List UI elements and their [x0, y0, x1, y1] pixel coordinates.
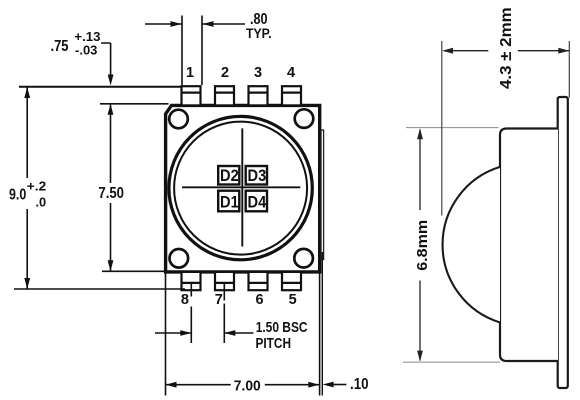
svg-text:1: 1 — [186, 65, 194, 81]
svg-text:+.2: +.2 — [27, 179, 46, 193]
svg-text:.10: .10 — [350, 376, 369, 393]
bottom pin shoulder lines — [182, 282, 302, 284]
extension line pin8 center — [190, 283, 192, 343]
side view body block — [500, 129, 558, 362]
extension line above pin1 left — [181, 16, 183, 86]
svg-text:D1: D1 — [220, 192, 239, 211]
die D3 box — [246, 166, 267, 185]
svg-text:5: 5 — [289, 292, 297, 308]
svg-text:9.0: 9.0 — [9, 187, 26, 204]
pin 1 — [182, 86, 201, 105]
dim 9.0 line — [26, 88, 28, 289]
svg-text:8: 8 — [181, 292, 189, 308]
dim 7.50 line — [110, 104, 112, 270]
side tab on right edge — [321, 130, 324, 260]
pin 3 — [249, 86, 268, 105]
die D2 box — [218, 166, 239, 185]
lens inner circle — [174, 122, 307, 255]
svg-text:.75: .75 — [51, 38, 69, 55]
svg-text:TYP.: TYP. — [246, 26, 272, 41]
svg-text:6.8mm: 6.8mm — [414, 220, 431, 271]
svg-text:7: 7 — [215, 292, 223, 308]
dim 4.3 extension left — [441, 41, 443, 216]
mounting hole bottom-right — [294, 249, 313, 268]
svg-text:2: 2 — [221, 65, 229, 81]
side view lens dome — [443, 167, 500, 323]
side grey extension bottom — [403, 361, 500, 363]
crosshair vertical — [241, 128, 243, 246]
dim 7.00 line — [166, 384, 320, 386]
extension line below body right — [319, 272, 321, 396]
extension line body-top left — [100, 103, 169, 105]
extension line tab edge — [321, 252, 323, 396]
svg-text:7.50: 7.50 — [98, 185, 124, 202]
dim .80 TYP line — [145, 23, 245, 25]
mounting hole top-right — [295, 109, 314, 128]
pin 4 — [282, 86, 301, 105]
top pin shoulder lines — [182, 91, 302, 93]
svg-text:-.03: -.03 — [75, 43, 97, 58]
svg-text:D2: D2 — [220, 166, 239, 185]
side grey extension top — [406, 127, 499, 129]
svg-text:4.3 ± 2mm: 4.3 ± 2mm — [498, 7, 515, 89]
pin 6 — [249, 272, 268, 290]
svg-text:7.00: 7.00 — [234, 378, 261, 395]
dim .10 arrow and tail — [333, 384, 346, 386]
svg-text:D4: D4 — [248, 192, 267, 211]
extension line above pin1 right — [201, 16, 203, 86]
die D4 box — [246, 191, 267, 212]
svg-text:.0: .0 — [36, 196, 47, 210]
mounting hole bottom-left — [170, 249, 189, 268]
svg-text:D3: D3 — [248, 166, 267, 185]
extension line pin7 center — [223, 283, 225, 343]
extension line pin-bottom left — [14, 288, 185, 290]
dim 4.3 extension right — [568, 41, 570, 98]
mounting hole top-left — [169, 110, 188, 129]
svg-text:PITCH: PITCH — [256, 335, 292, 352]
pin 8 — [182, 272, 201, 290]
svg-text:3: 3 — [254, 65, 262, 81]
extension line body-bottom left — [102, 270, 164, 272]
extension line pin-top left — [19, 86, 181, 88]
dim 1.50 BSC line — [155, 332, 254, 334]
dim 6.8 line — [419, 130, 421, 361]
extension line below body left — [165, 272, 167, 396]
crosshair horizontal — [182, 186, 300, 188]
side view flange plate — [558, 97, 568, 388]
pin 2 — [215, 86, 234, 105]
dim .75 leader — [101, 43, 111, 75]
svg-text:6: 6 — [256, 292, 264, 308]
dim 4.3 line — [453, 50, 569, 52]
svg-text:4: 4 — [287, 65, 295, 81]
LED package body (top view) — [166, 105, 320, 272]
pin 7 — [215, 272, 234, 290]
lens outer circle — [169, 116, 312, 259]
pin 5 — [282, 272, 301, 290]
svg-text:1.50 BSC: 1.50 BSC — [256, 319, 308, 336]
die D1 box — [218, 191, 239, 212]
